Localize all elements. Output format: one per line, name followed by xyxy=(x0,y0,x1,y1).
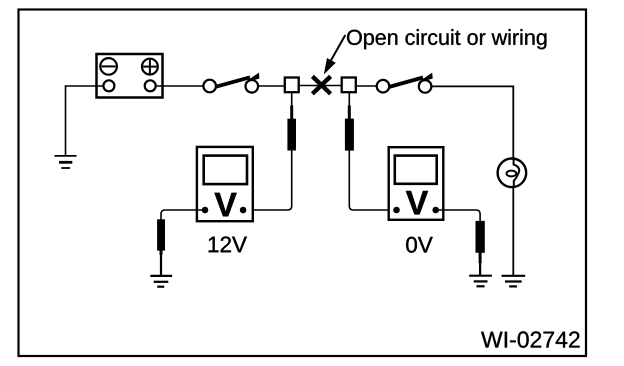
voltmeter V1 negative terminal dot xyxy=(202,207,209,214)
label 12V xyxy=(209,237,247,253)
voltmeter V2 negative terminal dot xyxy=(393,207,400,214)
battery positive post xyxy=(145,80,156,91)
wire J2 to switch SW2 xyxy=(357,85,377,87)
voltmeter V1 positive terminal dot xyxy=(240,207,247,214)
battery B1 body xyxy=(97,54,163,98)
wire lamp to ground xyxy=(512,187,514,275)
wire battery left terminal to ground xyxy=(66,86,109,155)
annotation text: Open circuit or wiring xyxy=(347,29,546,49)
annotation arrow to open point xyxy=(324,35,346,75)
wire voltmeter V1 left lead to probe P3 xyxy=(161,210,205,220)
switch SW2 xyxy=(377,73,433,93)
battery positive terminal symbol xyxy=(142,59,158,75)
wire voltmeter V2 right lead to probe P4 xyxy=(436,210,480,221)
ground G3 (voltmeter V2) xyxy=(469,276,492,287)
voltmeter V2 positive terminal dot xyxy=(432,207,439,214)
wire P2 to voltmeter V2 left lead xyxy=(349,150,396,210)
connector J2 xyxy=(342,78,356,93)
wire SW1 to connector J1 xyxy=(258,85,284,87)
ground G4 (below lamp) xyxy=(502,276,526,287)
probe P2 (below connector J2) xyxy=(345,93,354,151)
wire SW2 to lamp xyxy=(432,86,514,159)
probe P1 (below connector J1) xyxy=(287,93,296,151)
open circuit X mark xyxy=(312,76,330,93)
ground G2 (voltmeter V1) xyxy=(150,276,172,287)
label 0V xyxy=(406,237,433,253)
switch SW1 xyxy=(203,73,259,93)
wire J1 to J2 through open point xyxy=(299,85,342,87)
wire battery right terminal to switch SW1 xyxy=(150,85,203,87)
figure number WI-02742 xyxy=(481,331,579,347)
lamp L1 xyxy=(498,159,527,188)
voltmeter V2 xyxy=(389,147,444,220)
ground G1 (below battery) xyxy=(55,156,77,168)
probe P4 (voltmeter V2 ground lead) xyxy=(476,221,485,275)
wire P1 to voltmeter V1 right lead xyxy=(243,150,292,210)
connector J1 xyxy=(285,78,299,93)
probe P3 (voltmeter V1 ground lead) xyxy=(157,219,165,275)
voltmeter V1 xyxy=(197,147,253,221)
battery negative terminal symbol xyxy=(100,58,117,75)
battery negative post xyxy=(103,80,114,91)
